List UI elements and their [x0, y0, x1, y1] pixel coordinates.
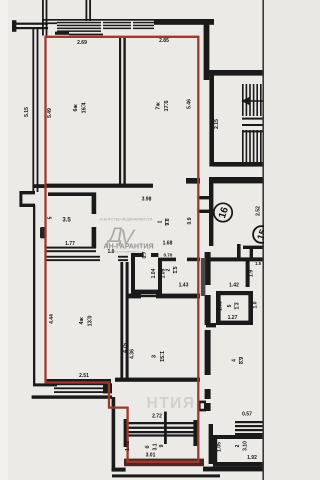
flat15 bottom room top wall — [213, 435, 264, 439]
svg-text:4: 4 — [232, 359, 238, 362]
left exterior wall lower — [33, 205, 35, 386]
flat15 window band line4 — [235, 433, 264, 435]
flat15 corridor wall seg1 — [205, 252, 211, 285]
shaft wall right of wc — [201, 258, 206, 296]
svg-text:3.01: 3.01 — [146, 453, 156, 459]
svg-text:0.57: 0.57 — [242, 412, 252, 418]
left pilaster cap — [19, 191, 22, 207]
left stub cap — [12, 20, 16, 32]
left pilaster top line — [21, 191, 35, 194]
corridor top wall — [33, 184, 46, 188]
svg-text:агентство недвижимости: агентство недвижимости — [110, 249, 143, 253]
left edge lighter strip — [0, 0, 8, 480]
small room right wall upper — [92, 192, 97, 214]
small room right wall lower — [92, 227, 97, 248]
svg-text:5: 5 — [48, 216, 54, 219]
svg-text:5.15: 5.15 — [24, 107, 30, 117]
balcony parapet — [124, 459, 204, 467]
balcony window line4 — [128, 434, 196, 436]
stairwell top wall — [209, 70, 264, 76]
wall stub left of entry — [186, 178, 200, 184]
svg-text:15.1: 15.1 — [160, 351, 166, 362]
thick wall between left rooms line2 — [126, 262, 129, 381]
stair arrow — [243, 98, 264, 104]
svg-text:0.9: 0.9 — [187, 217, 193, 224]
svg-text:17.6: 17.6 — [164, 100, 170, 111]
svg-text:2.15: 2.15 — [214, 119, 220, 129]
svg-text:5.46: 5.46 — [187, 99, 193, 109]
svg-text:2.51: 2.51 — [79, 373, 89, 379]
lower exterior wall line — [32, 395, 112, 398]
svg-text:6ж: 6ж — [73, 103, 79, 111]
flat15 bathroom right — [248, 291, 253, 325]
flat15 small tick wall — [237, 244, 241, 259]
column box white inner — [201, 403, 204, 409]
small room bottom wall — [46, 247, 96, 249]
balcony window line2 — [128, 427, 196, 429]
flat number 15 circle — [253, 226, 270, 243]
stairwell left wall — [209, 73, 214, 167]
svg-text:7ж: 7ж — [156, 101, 162, 109]
stair treads upper flight — [242, 84, 244, 116]
room 4zh top wall — [46, 256, 100, 258]
svg-text:1.43: 1.43 — [179, 283, 189, 289]
entry hall wall G — [209, 177, 264, 183]
balcony right wall — [193, 420, 197, 446]
svg-text:1.92: 1.92 — [247, 455, 257, 461]
svg-text:0.7: 0.7 — [142, 251, 148, 258]
stairwell bottom wall — [213, 162, 264, 167]
wall top vertical B — [86, 0, 88, 21]
svg-text:4ж: 4ж — [79, 316, 85, 324]
flat15 bathroom top — [216, 291, 253, 295]
balcony window line3 — [128, 431, 196, 433]
svg-text:б: б — [144, 445, 151, 448]
flat15 top wall — [210, 257, 264, 261]
red apartment outline — [46, 37, 199, 462]
flat15 shaft vertical — [250, 249, 253, 261]
window sill line — [69, 34, 103, 36]
svg-text:1.9: 1.9 — [249, 270, 255, 277]
svg-text:1.0: 1.0 — [253, 301, 259, 308]
svg-text:3.5: 3.5 — [62, 218, 71, 224]
svg-text:5: 5 — [227, 304, 233, 307]
door jamb upper of flat16 — [199, 196, 213, 199]
svg-text:1.3: 1.3 — [235, 302, 241, 309]
svg-text:1: 1 — [158, 220, 164, 223]
svg-text:2.69: 2.69 — [77, 40, 87, 46]
balcony mullion — [164, 412, 167, 444]
lower wall corner line — [33, 383, 57, 386]
svg-text:8.9: 8.9 — [239, 357, 245, 364]
svg-text:1.0: 1.0 — [108, 249, 115, 255]
flat15 corridor wall seg1b — [205, 295, 211, 325]
flat15 bathroom bottom — [216, 321, 253, 325]
bath bottom wall — [135, 290, 160, 294]
svg-text:4.36: 4.36 — [130, 349, 136, 359]
balcony left wall — [124, 419, 128, 447]
bath wc divider — [158, 261, 162, 294]
lower window line 2 — [54, 387, 106, 389]
svg-text:1.77: 1.77 — [65, 241, 75, 247]
svg-text:1.68: 1.68 — [163, 241, 173, 247]
wall F top right — [204, 19, 210, 80]
top wall inner line left — [42, 22, 57, 24]
window band line2 — [57, 25, 101, 27]
flat15 window band line1 — [235, 421, 264, 423]
svg-text:4.44: 4.44 — [49, 314, 55, 324]
dimension texts — [24, 38, 261, 461]
flat15 bottom room bottom wall — [213, 462, 264, 467]
window band line4 — [57, 30, 101, 32]
svg-text:2.85: 2.85 — [159, 38, 169, 44]
svg-text:1.27: 1.27 — [228, 315, 238, 321]
right edge border — [262, 0, 264, 480]
svg-text:2.52: 2.52 — [256, 206, 262, 216]
svg-text:3.10: 3.10 — [243, 441, 249, 451]
svg-text:1.42: 1.42 — [229, 283, 239, 289]
flat15 shaft top wall — [243, 246, 264, 249]
rooms bottom wall left part — [46, 379, 111, 384]
svg-text:4.75: 4.75 — [123, 343, 129, 353]
svg-text:2.72: 2.72 — [152, 414, 162, 420]
svg-text:1.02: 1.02 — [125, 441, 131, 451]
flat15 hall stub — [206, 323, 216, 327]
svg-text:1.5: 1.5 — [173, 266, 179, 273]
left stub wall lower line — [12, 27, 48, 29]
flat15 inner wall — [246, 261, 250, 287]
bath top wall — [131, 253, 144, 257]
left stub wall upper line — [12, 23, 48, 25]
door mark on left red wall — [40, 227, 45, 238]
wc top wall — [158, 258, 176, 262]
svg-text:1.05: 1.05 — [218, 301, 224, 311]
flat15 window band line3 — [235, 429, 264, 431]
door jamb lower of flat16 — [199, 210, 213, 213]
landing left wall upper — [209, 183, 213, 246]
svg-text:3.98: 3.98 — [142, 197, 152, 203]
top exterior wall outer line — [42, 19, 206, 21]
neighbor below bottom stub — [112, 468, 126, 472]
svg-text:2: 2 — [235, 444, 241, 447]
svg-text:1.04: 1.04 — [151, 268, 157, 278]
svg-text:9: 9 — [159, 444, 165, 447]
stair landing lines — [242, 118, 264, 120]
window sill dark block — [55, 32, 69, 35]
svg-text:3: 3 — [152, 355, 158, 358]
left exterior wall upper — [32, 29, 34, 192]
svg-text:9.8: 9.8 — [165, 218, 171, 225]
svg-text:НТИЯ: НТИЯ — [147, 395, 196, 412]
flat15 corridor wall seg2 — [205, 330, 211, 375]
bottom thin line — [112, 474, 220, 477]
thick wall between left rooms line1 — [120, 262, 123, 381]
flat15 bottom room left wall — [213, 435, 217, 464]
left pilaster bottom line — [21, 204, 35, 207]
flat15 wall above bottom box — [209, 424, 213, 464]
rooms bottom wall center part — [115, 378, 200, 382]
stair treads lower flight — [242, 130, 244, 162]
svg-text:5.49: 5.49 — [47, 108, 53, 118]
neighbor bottom right wall — [203, 467, 264, 472]
top wall solid right part — [154, 19, 214, 25]
neighbor below vertical wall — [112, 397, 116, 471]
wall top-left vertical A — [42, 0, 44, 36]
lower window line 1 — [54, 383, 106, 385]
column box black — [198, 401, 206, 412]
flat number 16 circle — [214, 203, 232, 221]
svg-text:16.4: 16.4 — [82, 102, 88, 114]
svg-text:0.70: 0.70 — [164, 253, 173, 258]
window band line1 — [57, 22, 101, 24]
bath left wall — [131, 253, 135, 296]
window band line3 — [57, 28, 101, 30]
flat15 bathroom left — [216, 291, 221, 325]
divider wall between top rooms — [119, 37, 121, 187]
svg-text:3.1: 3.1 — [153, 443, 159, 450]
svg-text:2: 2 — [166, 268, 172, 271]
lower window line 3 — [54, 391, 106, 393]
flat15 corridor wall seg3 — [205, 389, 211, 399]
svg-text:АГЕНТСТВО НЕДВИЖИМОСТИ: АГЕНТСТВО НЕДВИЖИМОСТИ — [100, 218, 153, 222]
svg-text:13.0: 13.0 — [88, 315, 94, 326]
svg-text:1.5: 1.5 — [255, 261, 261, 266]
balcony window line1 — [128, 422, 196, 424]
small room inner top wall — [48, 192, 92, 196]
svg-text:1.05: 1.05 — [217, 442, 223, 452]
flat15 window band line2 — [235, 425, 264, 427]
lower window right jamb — [103, 383, 112, 393]
center room top wall — [126, 294, 141, 299]
